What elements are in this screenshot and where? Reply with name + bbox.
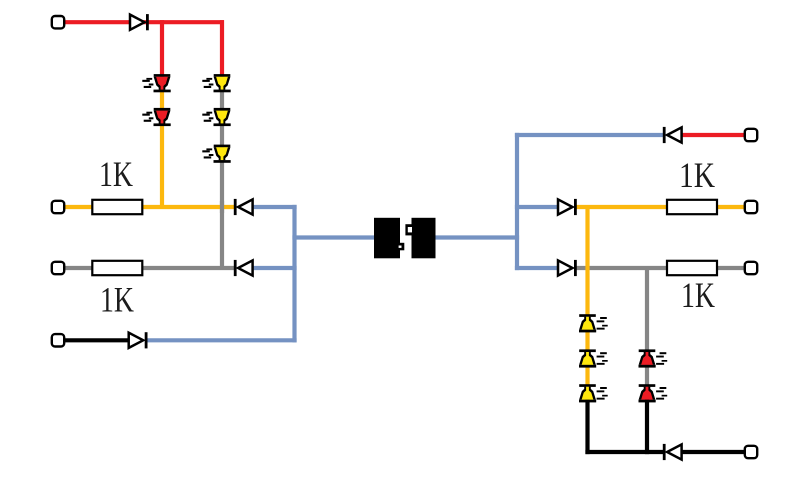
wire: gray segment below yellow LEDs to row2 [220, 83, 224, 270]
LED red 2 (left column) [142, 108, 170, 126]
wire: blue stub right row1 [515, 205, 559, 209]
wire: yellow drop to bottom yellow LED column [585, 205, 589, 393]
terminal T8 bottom-right [745, 446, 757, 458]
LED yellow 1 (left column) [202, 74, 230, 92]
svg-text:1K: 1K [99, 154, 133, 194]
wire: bottom black segment diode to terminal [680, 450, 746, 454]
wire: left row1 yellow horizontal [63, 205, 235, 209]
wire: gray drop to bottom red LED column [645, 266, 649, 393]
wire: blue stub row2 to left bus [251, 266, 297, 270]
wire: top-right red segment to terminal [680, 133, 746, 137]
LED red 4 (bottom column) [639, 384, 668, 402]
wire: gray crossing over row1 [220, 201, 224, 213]
diode D5 top-right [663, 127, 682, 143]
wire: top-right blue horizontal [515, 133, 664, 137]
wire: left row3 blue segment to bus [147, 338, 297, 342]
wire: right row2 gray horizontal [576, 266, 746, 270]
terminal T2 left row1 [52, 201, 64, 213]
resistor R3 right row1 [667, 200, 717, 214]
diode D2 left row1 [234, 199, 253, 215]
value label 1K for R4 [681, 275, 715, 315]
terminal T4 left row3 [52, 334, 64, 346]
wire: red drop to yellow LED column [220, 20, 224, 83]
coupler right block [405, 218, 435, 258]
diode D1 top-left [130, 14, 149, 30]
wire: blue link left bus to coupler [292, 235, 376, 239]
coupler left block [374, 218, 404, 258]
terminal T1 top-left [52, 16, 64, 28]
wire: bottom black horizontal to diode [585, 450, 663, 454]
LED yellow 2 (left column) [202, 108, 230, 126]
wire: black below red LED column [645, 393, 649, 454]
diode D8 bottom-right [663, 444, 682, 460]
terminal T5 top-right [745, 129, 757, 141]
wire: yellow segment below red LEDs to row1 [160, 83, 164, 209]
wire: blue stub right row2 [515, 266, 559, 270]
diode D3 left row2 [234, 260, 253, 276]
diode D4 left row3 [129, 332, 148, 348]
LED yellow 6 (bottom column) [579, 384, 608, 402]
svg-text:1K: 1K [679, 155, 715, 195]
svg-text:1K: 1K [100, 280, 134, 320]
LED yellow 3 (left column) [202, 145, 230, 163]
diode D7 right row2 [558, 260, 577, 276]
wire: left row3 black segment [63, 338, 130, 342]
terminal T3 left row2 [52, 262, 64, 274]
wire: blue link coupler to right bus [434, 235, 519, 239]
wire: blue stub row1 to left bus [251, 205, 297, 209]
LED red 3 (bottom column) [639, 349, 668, 367]
wire: top-left red horizontal net [63, 20, 224, 24]
LED yellow 4 (bottom column) [579, 314, 608, 332]
value label 1K for R2 [100, 280, 134, 320]
diode D6 right row1 [558, 199, 577, 215]
wire: black below yellow LED column [585, 393, 589, 454]
LED yellow 5 (bottom column) [579, 349, 608, 367]
wire: right blue bus vertical [515, 133, 519, 270]
resistor R4 right row2 [667, 261, 717, 275]
svg-text:1K: 1K [681, 275, 715, 315]
wire: left row2 gray horizontal [63, 266, 235, 270]
value label 1K for R1 [99, 154, 133, 194]
wire: left blue bus vertical [292, 205, 296, 343]
wire: red drop to red LED column [160, 20, 164, 83]
terminal T6 right row1 [745, 201, 757, 213]
LED red 1 (left column) [142, 74, 170, 92]
wire: right row1 yellow horizontal [576, 205, 746, 209]
resistor R2 left row2 [92, 261, 142, 275]
terminal T7 right row2 [745, 262, 757, 274]
value label 1K for R3 [679, 155, 715, 195]
resistor R1 left row1 [92, 200, 142, 214]
